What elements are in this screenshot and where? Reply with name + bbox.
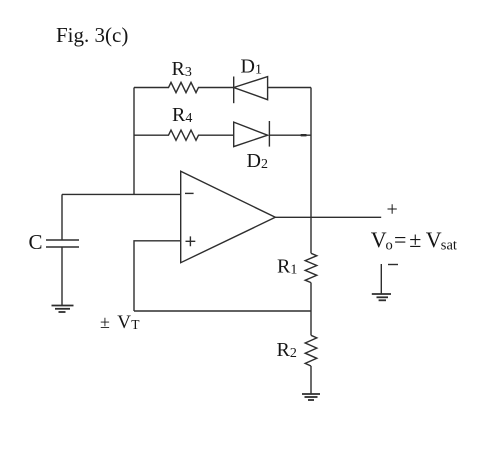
- svg-text:R3: R3: [172, 58, 192, 80]
- ground (below capacitor): [52, 306, 74, 313]
- wire junction to R2 top: [310, 311, 312, 335]
- ground (output reference): [372, 264, 391, 300]
- svg-text:Vo=±Vsat: Vo=±Vsat: [371, 227, 457, 254]
- svg-text:±VT: ±VT: [100, 312, 140, 333]
- resistor R1: [305, 253, 317, 282]
- wire R2 bottom to ground: [310, 366, 312, 394]
- ground (below R2): [302, 394, 320, 400]
- svg-text:Fig. 3(c): Fig. 3(c): [56, 23, 128, 47]
- resistor R4: [134, 130, 234, 140]
- wire inverting-node vertical (R3/R4 junction down to - input wire): [133, 88, 135, 195]
- op-amp inverting pin '-' sign: [185, 192, 194, 194]
- wire D1 anode to output bus: [268, 87, 311, 89]
- diode D1 (cathode bar on left): [234, 77, 268, 104]
- resistor R2: [305, 335, 317, 366]
- wire capacitor top to inverting input: [62, 193, 181, 195]
- wire op-amp output: [275, 216, 381, 218]
- wire R1 bottom to junction: [310, 283, 312, 311]
- svg-text:R4: R4: [172, 104, 192, 126]
- svg-text:+: +: [387, 199, 398, 221]
- wire output bus vertical: [310, 88, 312, 254]
- wire feedback bottom rail to R1/R2 junction: [134, 310, 311, 312]
- svg-text:C: C: [29, 230, 43, 254]
- wire D2 cathode to output bus: [269, 134, 311, 136]
- junction mark on D2 wire at bus: [301, 134, 307, 136]
- capacitor C (plates and leads): [46, 194, 79, 305]
- minus sign (output polarity): [388, 264, 398, 266]
- op-amp U1: [181, 171, 276, 263]
- svg-text:R2: R2: [277, 339, 297, 361]
- wire non-inverting input to feedback node: [134, 241, 181, 311]
- resistor R3: [134, 82, 234, 92]
- op-amp non-inverting pin '+' sign: [186, 236, 196, 246]
- svg-text:D2: D2: [247, 150, 268, 172]
- svg-text:R1: R1: [277, 256, 297, 278]
- diode D2 (cathode bar on right): [234, 121, 270, 147]
- svg-text:D1: D1: [241, 56, 262, 78]
